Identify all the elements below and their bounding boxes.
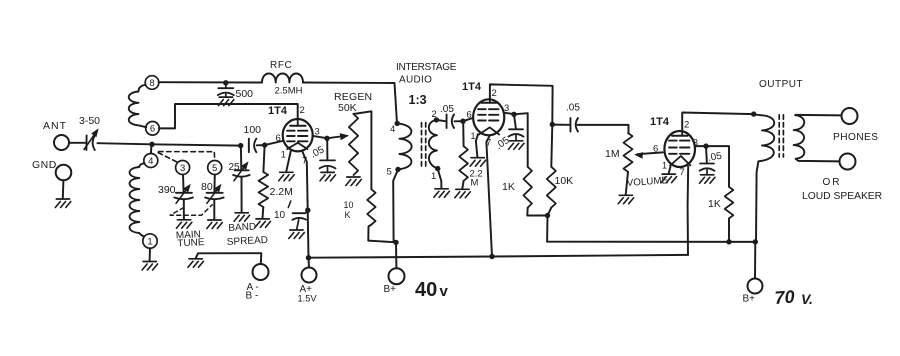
svg-text:1M: 1M <box>605 148 620 160</box>
svg-text:.05: .05 <box>566 103 580 114</box>
svg-text:ANT: ANT <box>43 120 67 132</box>
svg-text:OUTPUT: OUTPUT <box>759 79 803 90</box>
svg-text:INTERSTAGE: INTERSTAGE <box>396 62 457 73</box>
svg-text:100: 100 <box>244 124 262 136</box>
svg-text:500: 500 <box>236 88 254 100</box>
svg-text:1T4: 1T4 <box>462 81 482 93</box>
svg-text:10K: 10K <box>555 175 574 187</box>
svg-text:1.5V: 1.5V <box>298 294 318 304</box>
svg-text:K: K <box>345 210 351 220</box>
svg-text:2: 2 <box>492 88 497 99</box>
svg-text:8: 8 <box>149 78 154 89</box>
svg-text:2: 2 <box>300 105 305 116</box>
svg-text:M: M <box>471 178 479 189</box>
svg-text:1: 1 <box>662 161 667 171</box>
svg-text:BAND: BAND <box>228 222 256 234</box>
svg-text:40: 40 <box>415 279 437 301</box>
svg-text:1K: 1K <box>502 181 515 193</box>
svg-text:SPREAD: SPREAD <box>227 235 269 248</box>
svg-text:10: 10 <box>274 210 286 221</box>
svg-text:390: 390 <box>158 184 176 196</box>
svg-text:25: 25 <box>229 162 241 173</box>
svg-text:2.2M: 2.2M <box>270 186 293 198</box>
svg-text:50K: 50K <box>338 102 357 114</box>
svg-text:6: 6 <box>150 124 155 135</box>
svg-text:5: 5 <box>387 167 392 178</box>
svg-text:B -: B - <box>246 291 259 302</box>
svg-text:10: 10 <box>344 200 354 210</box>
svg-text:LOUD SPEAKER: LOUD SPEAKER <box>802 191 882 202</box>
svg-text:OR: OR <box>823 177 842 188</box>
svg-text:AUDIO: AUDIO <box>399 75 432 86</box>
svg-text:80: 80 <box>201 181 213 193</box>
svg-text:1: 1 <box>471 131 476 141</box>
svg-text:v: v <box>440 283 449 300</box>
svg-text:4: 4 <box>390 124 395 135</box>
svg-text:3-50: 3-50 <box>79 115 100 127</box>
svg-text:6: 6 <box>276 133 281 144</box>
svg-text:TUNE: TUNE <box>177 237 205 249</box>
svg-text:5: 5 <box>212 163 217 174</box>
svg-text:6: 6 <box>467 110 472 121</box>
svg-text:PHONES: PHONES <box>833 132 878 143</box>
svg-text:2.5MH: 2.5MH <box>275 86 303 97</box>
svg-text:4: 4 <box>148 156 153 167</box>
svg-text:2: 2 <box>432 109 437 120</box>
svg-text:B+: B+ <box>743 294 756 305</box>
svg-text:7: 7 <box>680 167 685 178</box>
svg-text:1T4: 1T4 <box>650 116 670 128</box>
svg-text:.05: .05 <box>440 104 454 115</box>
svg-text:6: 6 <box>653 144 658 155</box>
svg-text:1K: 1K <box>708 198 721 210</box>
svg-text:1T4: 1T4 <box>268 105 288 117</box>
svg-text:1: 1 <box>431 171 436 182</box>
svg-text:70: 70 <box>774 287 795 308</box>
svg-text:3: 3 <box>180 163 185 174</box>
svg-text:RFC: RFC <box>270 60 292 71</box>
svg-text:GND: GND <box>32 159 57 171</box>
svg-text:1:3: 1:3 <box>409 93 427 107</box>
svg-text:B+: B+ <box>384 284 397 295</box>
svg-text:V.: V. <box>801 291 813 307</box>
svg-text:1: 1 <box>147 236 152 247</box>
svg-text:1: 1 <box>281 150 286 160</box>
svg-text:2: 2 <box>684 120 689 131</box>
